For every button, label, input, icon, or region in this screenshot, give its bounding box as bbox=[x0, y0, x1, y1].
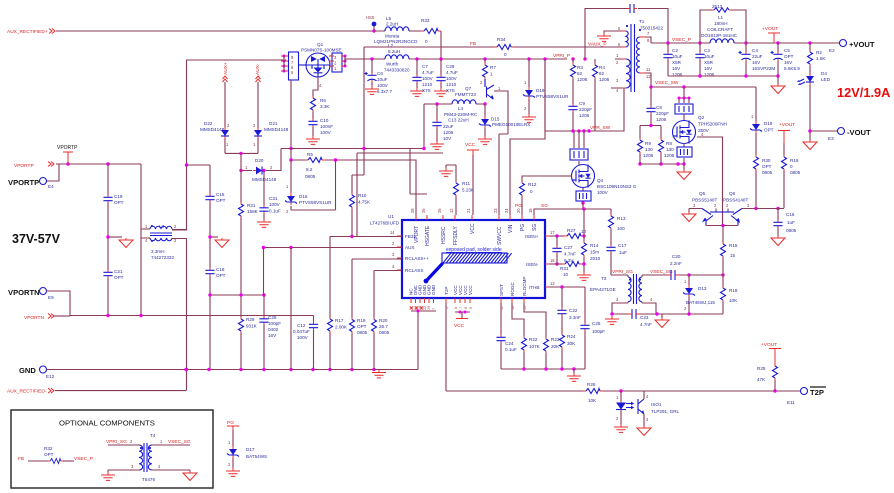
svg-text:R9: R9 bbox=[645, 141, 651, 146]
svg-text:D20: D20 bbox=[255, 158, 264, 163]
capacitor C18 bbox=[205, 267, 225, 278]
resistor R3 bbox=[571, 59, 588, 104]
svg-text:4.75K: 4.75K bbox=[358, 200, 371, 205]
svg-text:+VOUT: +VOUT bbox=[762, 26, 778, 32]
LED D4 bbox=[797, 71, 831, 131]
svg-text:3.3mH: 3.3mH bbox=[151, 249, 165, 254]
resistor R8 bbox=[659, 138, 675, 164]
svg-text:LED: LED bbox=[821, 77, 831, 82]
diode D20 bbox=[239, 149, 281, 183]
ground T4 left bbox=[101, 470, 115, 480]
svg-text:37V-57V: 37V-57V bbox=[12, 232, 61, 246]
svg-text:VSEC_SG: VSEC_SG bbox=[650, 269, 673, 275]
ground Q5 bbox=[682, 209, 696, 222]
capacitor C2 bbox=[663, 43, 682, 77]
svg-text:R26: R26 bbox=[587, 382, 596, 387]
svg-text:VPORTN: VPORTN bbox=[8, 288, 40, 297]
transformer T4 bbox=[106, 433, 191, 482]
svg-text:HSGATE: HSGATE bbox=[425, 225, 431, 246]
svg-text:PG: PG bbox=[227, 420, 234, 426]
svg-text:R31: R31 bbox=[560, 266, 569, 271]
wire Q1 left row bbox=[186, 55, 288, 73]
net VSEC_SW bbox=[649, 80, 756, 89]
svg-text:D21: D21 bbox=[269, 121, 278, 126]
svg-text:PBSS5140T: PBSS5140T bbox=[692, 198, 717, 203]
svg-text:BAT54WS: BAT54WS bbox=[246, 454, 267, 459]
wire Q2 source bus bbox=[638, 162, 691, 179]
svg-text:R12: R12 bbox=[528, 182, 537, 187]
svg-text:0805: 0805 bbox=[790, 170, 801, 175]
svg-text:1: 1 bbox=[490, 72, 493, 77]
svg-text:C10: C10 bbox=[320, 118, 329, 123]
net VPORTP arrow bbox=[14, 162, 54, 170]
svg-text:R18: R18 bbox=[729, 288, 738, 293]
resistor R9 bbox=[638, 138, 654, 164]
svg-text:R15: R15 bbox=[729, 243, 738, 248]
wire AUX_RECTIFIED+ bus bbox=[56, 30, 374, 32]
svg-text:5.23K: 5.23K bbox=[462, 188, 475, 193]
wire ITHB row bbox=[550, 285, 585, 288]
wire bundle mid bbox=[281, 147, 443, 236]
svg-text:C24: C24 bbox=[505, 341, 514, 346]
svg-text:158K: 158K bbox=[247, 209, 259, 214]
svg-text:1210: 1210 bbox=[446, 82, 457, 87]
svg-text:OPT: OPT bbox=[216, 198, 226, 203]
transistor Q7 bbox=[455, 79, 508, 134]
svg-text:T2P: T2P bbox=[444, 287, 449, 295]
wire R5 row bbox=[289, 80, 416, 215]
svg-text:20K: 20K bbox=[551, 344, 560, 349]
transistor Q5 bbox=[689, 191, 722, 226]
svg-text:100V: 100V bbox=[320, 130, 332, 135]
svg-text:22uF: 22uF bbox=[752, 54, 763, 59]
svg-text:D16: D16 bbox=[299, 194, 308, 199]
svg-text:100V: 100V bbox=[446, 76, 458, 81]
transformer T3 bbox=[590, 274, 656, 314]
svg-text:1uF: 1uF bbox=[787, 220, 795, 225]
resistor R22 bbox=[512, 303, 541, 369]
resistor R12 bbox=[520, 176, 573, 215]
transistor Q6 bbox=[722, 191, 756, 226]
svg-text:5.6K5.9: 5.6K5.9 bbox=[784, 66, 800, 71]
power flag VPORTP bbox=[57, 145, 78, 164]
svg-text:47K: 47K bbox=[757, 377, 766, 382]
capacitor C26 bbox=[259, 295, 281, 370]
svg-text:PMEG10010ELRX: PMEG10010ELRX bbox=[492, 122, 530, 127]
svg-text:16V: 16V bbox=[752, 60, 761, 65]
svg-text:VPORTN: VPORTN bbox=[24, 315, 44, 321]
resistor R26 bbox=[583, 382, 603, 403]
svg-text:D18: D18 bbox=[764, 121, 773, 126]
svg-text:R16: R16 bbox=[790, 158, 799, 163]
svg-text:PG: PG bbox=[515, 203, 522, 209]
svg-text:R24: R24 bbox=[567, 334, 576, 339]
svg-text:VPORTP: VPORTP bbox=[57, 145, 78, 151]
capacitor C8 bbox=[646, 87, 669, 126]
svg-text:29: 29 bbox=[427, 306, 431, 310]
wire T3 bottom bus bbox=[605, 312, 723, 324]
capacitor C10 bbox=[306, 118, 333, 144]
resistor R34 bbox=[494, 37, 514, 57]
port T2P E11 bbox=[787, 387, 826, 405]
svg-text:0805: 0805 bbox=[305, 174, 316, 179]
svg-text:ROGC: ROGC bbox=[510, 282, 515, 296]
svg-text:-VOUT: -VOUT bbox=[847, 128, 871, 137]
svg-text:L5: L5 bbox=[386, 16, 392, 21]
svg-text:FMMT723: FMMT723 bbox=[455, 92, 476, 97]
svg-text:C31: C31 bbox=[269, 196, 278, 201]
svg-text:OPT: OPT bbox=[784, 54, 794, 59]
port VPORTN E9 bbox=[8, 288, 70, 317]
resistor R20 bbox=[372, 318, 390, 370]
resistor R5 bbox=[305, 152, 325, 179]
resistor R6 bbox=[311, 96, 331, 119]
capacitor C23 bbox=[628, 309, 652, 327]
resistor R13 bbox=[609, 209, 626, 245]
svg-text:100V: 100V bbox=[269, 202, 281, 207]
svg-text:PSMN07S-100MSE: PSMN07S-100MSE bbox=[301, 48, 342, 53]
svg-text:Q6: Q6 bbox=[729, 191, 736, 196]
svg-text:2.2nF: 2.2nF bbox=[670, 261, 682, 266]
capacitor C9 bbox=[568, 101, 592, 131]
svg-text:7: 7 bbox=[459, 307, 463, 309]
svg-text:Q7: Q7 bbox=[465, 86, 472, 91]
svg-text:R30: R30 bbox=[762, 158, 771, 163]
wire Q2 gate bus bbox=[678, 87, 691, 103]
svg-text:R7: R7 bbox=[490, 65, 496, 70]
svg-text:18: 18 bbox=[528, 208, 533, 213]
wire VPORTN row bbox=[70, 314, 314, 317]
resistor R25 bbox=[757, 364, 778, 391]
wire R21 column bbox=[240, 153, 242, 317]
svg-text:1206: 1206 bbox=[577, 77, 588, 82]
svg-text:Q1: Q1 bbox=[317, 42, 324, 47]
capacitor C7 bbox=[410, 59, 434, 96]
svg-text:R20: R20 bbox=[379, 318, 388, 323]
svg-text:62: 62 bbox=[577, 71, 583, 76]
transistor Q4 bbox=[560, 165, 637, 196]
svg-text:R2: R2 bbox=[816, 50, 822, 55]
svg-text:100pF: 100pF bbox=[592, 329, 605, 334]
svg-text:C8: C8 bbox=[656, 105, 662, 110]
resistor R15 bbox=[721, 226, 738, 276]
svg-text:VIN: VIN bbox=[508, 224, 514, 233]
inductor L1 with 2513 box bbox=[700, 4, 746, 43]
svg-text:26.7: 26.7 bbox=[379, 324, 388, 329]
capacitor C3 bbox=[695, 43, 714, 77]
svg-text:C4: C4 bbox=[752, 48, 758, 53]
svg-text:100V: 100V bbox=[597, 190, 609, 195]
transformer T1 bbox=[611, 19, 663, 93]
wire FB pin feed bbox=[330, 235, 403, 238]
svg-text:10K: 10K bbox=[588, 398, 597, 403]
wire T2P pin feed bbox=[445, 303, 447, 391]
svg-text:C21: C21 bbox=[114, 269, 123, 274]
svg-text:AUX+: AUX+ bbox=[223, 62, 229, 75]
svg-text:R25: R25 bbox=[757, 366, 766, 371]
svg-text:DO1813P-181HC: DO1813P-181HC bbox=[701, 33, 738, 38]
svg-text:L1: L1 bbox=[718, 15, 724, 20]
svg-text:0: 0 bbox=[790, 164, 793, 169]
svg-text:PTVS58VS1UR: PTVS58VS1UR bbox=[536, 94, 569, 99]
svg-text:100nF: 100nF bbox=[320, 124, 333, 129]
power VCC mid bbox=[465, 142, 479, 215]
svg-text:ISEN-: ISEN- bbox=[526, 262, 539, 267]
port GND E12 bbox=[19, 366, 55, 379]
svg-text:RLDCMP: RLDCMP bbox=[522, 277, 527, 296]
svg-text:2010: 2010 bbox=[590, 256, 601, 261]
svg-text:Q2: Q2 bbox=[698, 115, 705, 120]
svg-text:ITHB: ITHB bbox=[529, 285, 539, 290]
svg-text:C18: C18 bbox=[216, 267, 225, 272]
gate resistor bank Q2 bbox=[675, 104, 693, 121]
svg-text:16V: 16V bbox=[784, 60, 793, 65]
svg-text:OPT: OPT bbox=[762, 164, 772, 169]
svg-text:SFST: SFST bbox=[499, 284, 504, 296]
svg-text:+VOUT: +VOUT bbox=[849, 40, 875, 49]
capacitor C29 bbox=[434, 59, 458, 96]
resistor R24 bbox=[560, 333, 577, 369]
wire RCLASS++ pin feed bbox=[352, 259, 403, 318]
svg-text:1.5K: 1.5K bbox=[816, 56, 826, 61]
svg-text:Q4: Q4 bbox=[597, 178, 604, 183]
U1 right pins bbox=[525, 230, 555, 290]
resistor R2 bbox=[808, 43, 827, 75]
svg-text:D22: D22 bbox=[204, 121, 213, 126]
svg-text:?: ? bbox=[432, 308, 436, 310]
svg-text:VSEC_P: VSEC_P bbox=[672, 37, 691, 43]
svg-text:130: 130 bbox=[666, 147, 674, 152]
optional components box bbox=[11, 410, 213, 488]
svg-text:+VOUT: +VOUT bbox=[779, 122, 795, 128]
svg-text:T1: T1 bbox=[639, 19, 645, 24]
svg-text:E11: E11 bbox=[787, 400, 795, 405]
svg-text:R8: R8 bbox=[666, 141, 672, 146]
svg-text:GND: GND bbox=[19, 366, 36, 375]
svg-text:100V: 100V bbox=[297, 335, 309, 340]
svg-text:R21: R21 bbox=[247, 203, 256, 208]
net SG row bbox=[534, 203, 611, 215]
svg-text:OPTIONAL COMPONENTS: OPTIONAL COMPONENTS bbox=[59, 419, 155, 428]
svg-text:8: 8 bbox=[464, 307, 468, 309]
wire aux diode bus bbox=[225, 152, 258, 155]
wire C15/C18 column bbox=[209, 165, 211, 370]
svg-text:SG: SG bbox=[532, 224, 538, 231]
svg-text:VCC: VCC bbox=[454, 323, 465, 329]
svg-text:100: 100 bbox=[617, 226, 625, 231]
svg-text:100V: 100V bbox=[377, 83, 389, 88]
svg-text:R34: R34 bbox=[497, 37, 506, 42]
svg-text:0805: 0805 bbox=[357, 330, 368, 335]
svg-text:4.7uF: 4.7uF bbox=[446, 70, 458, 75]
pad Q4 bbox=[576, 188, 591, 209]
exposed pad U1 bbox=[424, 247, 512, 283]
svg-text:8.2: 8.2 bbox=[306, 167, 313, 172]
svg-text:L4: L4 bbox=[458, 106, 464, 111]
svg-text:16: 16 bbox=[550, 258, 555, 263]
svg-text:VSEC_SG: VSEC_SG bbox=[168, 439, 191, 445]
wire right bottom bus bbox=[501, 367, 585, 381]
capacitor C15 bbox=[205, 192, 225, 203]
svg-text:1uF: 1uF bbox=[619, 250, 627, 255]
svg-text:4.7nF: 4.7nF bbox=[564, 252, 576, 257]
U1 top pin names bbox=[414, 223, 538, 246]
wire VIN feed bbox=[510, 59, 545, 215]
capacitor C20 bbox=[650, 254, 689, 280]
svg-text:GND: GND bbox=[431, 284, 436, 295]
svg-text:X7S: X7S bbox=[446, 88, 455, 93]
svg-text:R11: R11 bbox=[462, 181, 471, 186]
svg-text:C5: C5 bbox=[784, 48, 790, 53]
svg-text:12: 12 bbox=[449, 208, 454, 213]
svg-text:SWVCC: SWVCC bbox=[497, 226, 503, 245]
svg-text:15: 15 bbox=[730, 253, 736, 258]
diode D17 bbox=[226, 440, 267, 476]
wire C8 to R9 R8 bbox=[640, 124, 661, 138]
port -VOUT E3 bbox=[803, 128, 871, 150]
svg-text:T2P: T2P bbox=[810, 388, 824, 397]
svg-text:T3: T3 bbox=[601, 276, 607, 281]
svg-text:C19: C19 bbox=[114, 194, 123, 199]
capacitor C13 bbox=[430, 104, 469, 149]
resistor R19 bbox=[350, 318, 368, 370]
svg-text:D4: D4 bbox=[821, 71, 827, 76]
svg-text:C22: C22 bbox=[569, 308, 578, 313]
svg-text:VPRI_SG: VPRI_SG bbox=[106, 439, 127, 445]
svg-text:R33: R33 bbox=[421, 18, 430, 23]
svg-text:4.7uF: 4.7uF bbox=[422, 70, 434, 75]
svg-text:exposed pad, solder side: exposed pad, solder side bbox=[446, 247, 502, 253]
svg-text:25: 25 bbox=[437, 208, 442, 213]
svg-text:0: 0 bbox=[504, 52, 507, 57]
ground T3 right bbox=[655, 314, 669, 328]
svg-text:1206: 1206 bbox=[656, 117, 667, 122]
svg-text:T5476: T5476 bbox=[142, 477, 155, 482]
capacitor C22 bbox=[557, 287, 581, 333]
diode D16 bbox=[285, 184, 332, 214]
node HSS bbox=[366, 15, 376, 33]
svg-text:744272332: 744272332 bbox=[151, 255, 174, 260]
svg-text:1206: 1206 bbox=[664, 153, 675, 158]
svg-text:R3: R3 bbox=[577, 65, 583, 70]
svg-text:26: 26 bbox=[421, 208, 426, 213]
svg-text:OPT: OPT bbox=[44, 452, 54, 457]
svg-text:13: 13 bbox=[550, 281, 555, 286]
svg-text:R13: R13 bbox=[617, 216, 626, 221]
svg-text:SG: SG bbox=[541, 203, 548, 209]
gate resistor bank Q4 bbox=[570, 131, 588, 165]
svg-text:RCLASS++: RCLASS++ bbox=[405, 256, 429, 261]
svg-text:12V/1.9A: 12V/1.9A bbox=[837, 85, 890, 100]
svg-text:VCC: VCC bbox=[468, 285, 473, 295]
svg-text:0.047uF: 0.047uF bbox=[293, 329, 310, 334]
svg-text:ISEN+: ISEN+ bbox=[525, 234, 539, 239]
capacitor C31 bbox=[257, 171, 281, 228]
svg-text:16V: 16V bbox=[268, 333, 277, 338]
svg-text:FFSDLY: FFSDLY bbox=[453, 226, 459, 245]
svg-text:3.3K: 3.3K bbox=[320, 104, 330, 109]
svg-text:VPR_SW: VPR_SW bbox=[590, 125, 611, 131]
svg-text:VSEC_P: VSEC_P bbox=[74, 456, 93, 462]
svg-text:C20: C20 bbox=[672, 254, 681, 259]
svg-text:1206: 1206 bbox=[579, 113, 590, 118]
svg-text:+VOUT: +VOUT bbox=[761, 342, 777, 348]
svg-text:D15: D15 bbox=[491, 117, 500, 122]
svg-text:10K: 10K bbox=[729, 298, 738, 303]
diode D15 bbox=[478, 104, 530, 144]
svg-text:3.3nF: 3.3nF bbox=[569, 315, 581, 320]
wire FB row bbox=[364, 41, 617, 149]
port VPORTP E4 bbox=[8, 178, 54, 190]
diode D18 bbox=[750, 87, 774, 155]
svg-text:R19: R19 bbox=[357, 318, 366, 323]
wire VSEC_P row bbox=[651, 37, 840, 45]
svg-text:7443330820: 7443330820 bbox=[384, 68, 410, 73]
svg-text:0805: 0805 bbox=[379, 330, 390, 335]
svg-text:VPORTP: VPORTP bbox=[14, 163, 34, 169]
net VPORTN arrow bbox=[24, 314, 70, 322]
svg-text:250V: 250V bbox=[698, 128, 710, 133]
capacitor C12 bbox=[293, 316, 318, 370]
svg-text:OPT: OPT bbox=[216, 273, 226, 278]
svg-text:HSSRC: HSSRC bbox=[441, 226, 447, 244]
svg-text:17: 17 bbox=[550, 230, 555, 235]
ground T4 right bbox=[183, 470, 197, 481]
svg-text:R4: R4 bbox=[599, 65, 605, 70]
svg-text:Q5: Q5 bbox=[699, 191, 706, 196]
svg-text:C26: C26 bbox=[268, 315, 277, 320]
svg-text:6: 6 bbox=[454, 307, 458, 309]
svg-text:FB31: FB31 bbox=[405, 234, 416, 239]
svg-text:130: 130 bbox=[645, 147, 653, 152]
svg-text:C13 22uH: C13 22uH bbox=[448, 118, 469, 123]
U1 bottom pins bbox=[409, 277, 528, 310]
svg-text:C3: C3 bbox=[704, 48, 710, 53]
svg-text:MMSD4148: MMSD4148 bbox=[200, 127, 225, 132]
svg-text:VPORTP: VPORTP bbox=[8, 178, 39, 187]
net AUX+ bbox=[223, 62, 230, 82]
svg-text:D13: D13 bbox=[698, 286, 707, 291]
svg-text:16V: 16V bbox=[704, 66, 713, 71]
svg-text:16V: 16V bbox=[672, 66, 681, 71]
svg-text:PM43-220M-RC: PM43-220M-RC bbox=[444, 112, 478, 117]
resistor R27 bbox=[550, 228, 587, 239]
svg-text:VPRI_SG: VPRI_SG bbox=[612, 269, 633, 275]
svg-text:X5R: X5R bbox=[672, 60, 682, 65]
capacitor C21 bbox=[103, 269, 123, 280]
svg-text:0805: 0805 bbox=[762, 170, 773, 175]
svg-text:1206: 1206 bbox=[443, 130, 454, 135]
wire T2P long row bbox=[446, 389, 801, 392]
svg-text:C17: C17 bbox=[618, 243, 627, 248]
svg-text:931K: 931K bbox=[246, 324, 258, 329]
svg-text:22uF: 22uF bbox=[443, 124, 454, 129]
svg-text:LQM21PN2R2NGCD: LQM21PN2R2NGCD bbox=[374, 39, 418, 44]
svg-text:12: 12 bbox=[646, 74, 651, 79]
net AUX- bbox=[255, 63, 261, 82]
svg-text:C7: C7 bbox=[422, 64, 428, 69]
svg-text:MMSD4148: MMSD4148 bbox=[264, 127, 289, 132]
svg-text:10uF: 10uF bbox=[672, 54, 683, 59]
svg-text:R6: R6 bbox=[320, 98, 326, 103]
svg-text:1210: 1210 bbox=[422, 82, 433, 87]
svg-text:VCC: VCC bbox=[470, 223, 476, 234]
wire RCLASS pin feed bbox=[374, 271, 403, 318]
resistor R32 bbox=[44, 446, 74, 464]
wire VPORTP row bbox=[46, 162, 141, 181]
svg-text:OPT: OPT bbox=[764, 128, 774, 133]
svg-text:C23: C23 bbox=[640, 315, 649, 320]
